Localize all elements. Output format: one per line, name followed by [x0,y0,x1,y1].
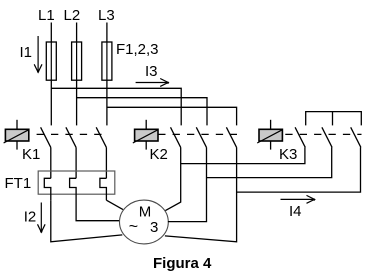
wire phase3 FT1 to motor (top left slant) [106,200,123,209]
K3 star bridge bar [306,112,362,126]
K2 actuation dashed line [158,133,237,135]
wire phase2 fuse to K1 contact [76,80,78,125]
wire bus1 to K2 contact1 [51,88,181,125]
fuse F1 [46,42,56,80]
wire phase L3 top [106,23,108,43]
wire phase3 fuse to K1 contact [106,80,108,125]
K1 contact 3 [96,127,106,147]
wire K2 contact3 to motor (bottom right) [165,147,237,241]
K2 contact 1 [171,127,181,147]
arrow I3 [136,79,169,87]
svg-text:F1,2,3: F1,2,3 [116,41,159,58]
overload relay FT1 box [38,171,115,194]
svg-text:K1: K1 [22,146,40,163]
fuse F2 [72,42,82,80]
K2 contact 3 [226,127,236,147]
FT1 heater element phase3 [100,178,107,200]
K3 contact 3 [351,127,361,147]
FT1 heater element phase1 [44,178,51,201]
svg-text:K3: K3 [279,146,297,163]
svg-text:I3: I3 [145,63,158,80]
contactor K3 coil [257,120,282,150]
svg-text:M: M [139,204,152,221]
svg-text:I4: I4 [289,203,302,220]
wire link K2c3 to K3c3 [237,147,361,192]
arrow I1 [34,36,42,73]
wire K1 contact3 to FT1 [105,147,107,178]
wire K1 contact1 to FT1 [50,147,52,178]
contactor K2 coil [133,120,158,150]
wire phase L1 top [50,23,52,43]
svg-text:Figura 4: Figura 4 [153,255,212,272]
contactor K1 coil [4,120,29,150]
svg-text:K2: K2 [150,146,168,163]
motor M circle [119,200,168,244]
K3 contact 1 [295,127,305,147]
svg-text:FT1: FT1 [5,175,32,192]
wire K2 contact2 to motor (right) [168,147,207,221]
K1 contact 2 [66,127,76,147]
svg-text:I2: I2 [24,209,37,226]
K3 contact 2 [322,127,332,147]
wire link K2c1 to K3c1 [181,147,305,163]
K2 contact 2 [196,127,206,147]
wire K2 contact1 to motor (top right) [165,147,180,210]
K1 contact 1 [41,127,51,147]
arrow I4 [281,195,316,203]
wire bus3 to K2 contact3 [107,107,237,125]
wire link K2c2 to K3c2 [207,147,332,177]
wire phase2 FT1 to motor (left) [76,202,120,221]
FT1 heater element phase2 [70,178,77,202]
wire phase L2 top [76,23,78,43]
svg-text:I1: I1 [20,44,33,61]
wire K1 contact2 to FT1 [75,147,77,178]
wire phase1 FT1 to motor (bottom left) [51,201,123,242]
svg-text:L2: L2 [64,7,81,24]
svg-text:L3: L3 [98,7,115,24]
svg-text:L1: L1 [38,7,55,24]
wire bus2 to K2 contact2 [77,98,207,126]
svg-text:3: 3 [150,219,158,236]
K3 star bridge middle drop [332,112,334,126]
wire phase1 fuse to K1 contact [50,80,52,125]
K1 actuation dashed line [37,133,107,135]
fuse F3 [102,42,112,80]
K3 actuation dashed line [285,133,361,135]
svg-text:~: ~ [129,219,138,236]
arrow I2 [38,203,46,233]
